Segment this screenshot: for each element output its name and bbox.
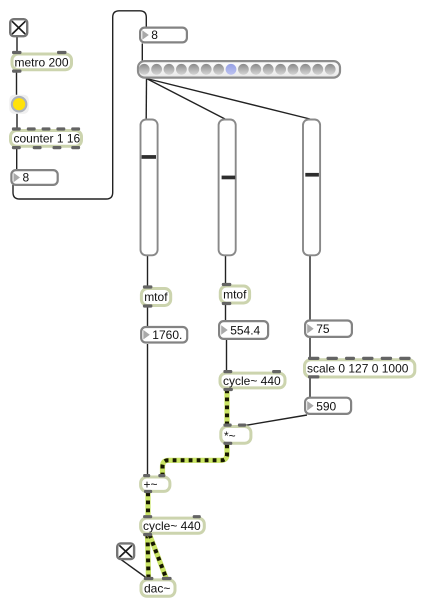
svg-text:dac~: dac~: [144, 581, 170, 595]
svg-text:75: 75: [316, 322, 330, 336]
svg-text:8: 8: [151, 28, 158, 42]
wire top number8 to radiogroup: [141, 44, 143, 61]
number box 8 bottom-left: [11, 170, 57, 185]
object dac~: [141, 577, 175, 596]
slider3: [303, 120, 320, 256]
svg-text:scale 0 127 0 1000: scale 0 127 0 1000: [307, 362, 409, 376]
object metro 200: [12, 51, 72, 73]
signal cord plus-tilde to cycle2: [145, 493, 150, 518]
signal cord cycle1 to times-tilde: [224, 390, 229, 426]
wire mtof1 to number1760: [147, 307, 149, 327]
slider2: [219, 120, 236, 256]
number box 590: [305, 398, 351, 414]
wire number554 to cycle1: [226, 340, 228, 372]
svg-text:cycle~ 440: cycle~ 440: [143, 519, 201, 533]
wire number590 to times-tilde right inlet: [242, 415, 307, 426]
svg-text:metro 200: metro 200: [15, 55, 69, 69]
object times-tilde: [221, 424, 251, 445]
number box 1760.: [141, 327, 187, 343]
object mtof right: [220, 283, 249, 305]
wire slider1 to mtof1: [147, 256, 149, 288]
wire toggle2 to dac: [121, 560, 148, 580]
wire counter to number8a: [16, 148, 18, 170]
bang button: [9, 95, 29, 114]
svg-text:590: 590: [316, 399, 336, 413]
toggle1: [10, 19, 27, 36]
wire slider3 to number75: [309, 256, 311, 320]
number box 75: [305, 321, 352, 337]
wire radiogroup to slider3: [147, 79, 311, 120]
wire bang to counter: [16, 114, 18, 130]
svg-text:mtof: mtof: [144, 290, 168, 304]
svg-text:counter 1 16: counter 1 16: [14, 132, 81, 146]
object plus-tilde: [141, 474, 170, 493]
slider1: [141, 120, 158, 256]
object scale 0 127 0 1000: [305, 357, 415, 379]
number box 554.4: [219, 321, 268, 339]
object cycle~ 440 second: [141, 515, 205, 536]
wire number1760 to plus-tilde left inlet: [147, 344, 149, 476]
object mtof left: [141, 285, 170, 307]
svg-text:554.4: 554.4: [230, 324, 260, 338]
svg-text:8: 8: [23, 171, 30, 185]
object counter 1 16: [11, 127, 82, 149]
svg-text:cycle~ 440: cycle~ 440: [223, 374, 281, 388]
wire toggle1 to metro: [16, 37, 18, 54]
radiogroup 16 buttons: [138, 61, 340, 78]
wire radiogroup to slider2: [147, 79, 226, 120]
svg-text:+~: +~: [144, 477, 158, 491]
signal cord times-tilde to plus-tilde: [163, 445, 228, 477]
signal cord cycle2 to dac right inlet: [150, 535, 167, 580]
toggle2: [117, 543, 134, 559]
wire scale to number590: [309, 378, 311, 397]
svg-text:1760.: 1760.: [152, 328, 182, 342]
number box 8 top: [140, 28, 187, 43]
wire mtof2 to number554: [225, 304, 227, 321]
wire number75 to scale: [309, 338, 311, 359]
svg-text:mtof: mtof: [223, 288, 247, 302]
signal cord cycle2 to dac left inlet: [148, 535, 149, 580]
svg-text:*~: *~: [224, 429, 236, 443]
wire number8a to top number8 long route: [13, 11, 146, 199]
wire metro to bang: [16, 71, 18, 95]
wire slider2 to mtof2: [225, 256, 227, 285]
object cycle~ 440 first: [220, 370, 285, 391]
wire radiogroup to slider1: [145, 79, 147, 120]
